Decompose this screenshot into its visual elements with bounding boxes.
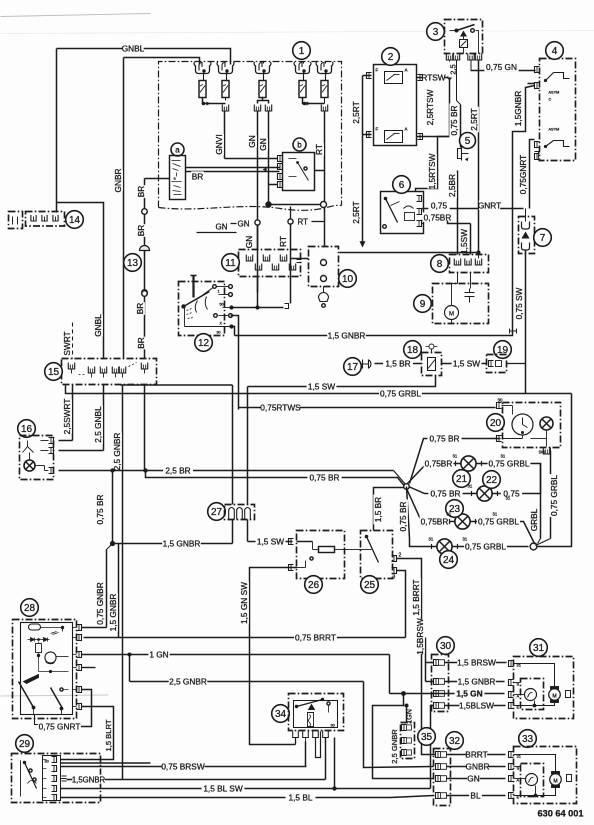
svg-text:11: 11 (225, 258, 236, 269)
svg-text:0,75 SW: 0,75 SW (514, 287, 524, 319)
svg-text:24: 24 (443, 555, 455, 566)
svg-text:1,5 GN SW: 1,5 GN SW (239, 582, 249, 624)
svg-text:16: 16 (21, 424, 33, 435)
svg-text:1,5 BRRT: 1,5 BRRT (411, 579, 421, 615)
svg-text:0,75 BR: 0,75 BR (430, 434, 460, 444)
svg-text:31: 31 (493, 512, 498, 517)
svg-text:0,75 BR: 0,75 BR (310, 473, 340, 483)
svg-text:BR: BR (136, 186, 146, 198)
svg-text:14: 14 (69, 215, 81, 226)
svg-text:5: 5 (465, 136, 471, 147)
svg-text:0,75GNRT: 0,75GNRT (518, 155, 528, 195)
svg-text:M: M (552, 694, 556, 700)
svg-text:3: 3 (393, 575, 396, 581)
svg-text:4: 4 (552, 46, 558, 57)
svg-text:1,5 GNBR: 1,5 GNBR (458, 677, 496, 687)
svg-text:2,5SWRT: 2,5SWRT (62, 399, 72, 435)
svg-text:0,75RTWS: 0,75RTWS (260, 403, 301, 413)
svg-text:GN: GN (238, 220, 250, 229)
svg-text:31: 31 (447, 512, 452, 517)
svg-text:RT: RT (314, 144, 324, 155)
svg-text:30: 30 (45, 760, 49, 764)
svg-text:28: 28 (24, 603, 36, 614)
svg-text:GNBL: GNBL (93, 314, 103, 337)
svg-text:32: 32 (449, 736, 461, 747)
svg-text:F: F (376, 68, 379, 73)
svg-text:2,5 GNBL: 2,5 GNBL (93, 406, 103, 443)
svg-text:BR: BR (192, 172, 204, 182)
svg-text:GNRT: GNRT (478, 201, 501, 211)
svg-text:13: 13 (127, 258, 139, 269)
svg-text:1,5 BRSW: 1,5 BRSW (457, 658, 496, 668)
svg-text:1,5 GNBR: 1,5 GNBR (108, 594, 118, 632)
svg-text:SM: SM (539, 450, 546, 455)
svg-text:6: 6 (399, 180, 405, 191)
svg-text:GN: GN (258, 138, 268, 150)
svg-text:8: 8 (437, 259, 443, 270)
svg-text:1,5 GNBR: 1,5 GNBR (163, 539, 201, 549)
svg-text:0,75 GRBL: 0,75 GRBL (465, 542, 506, 552)
svg-text:25: 25 (364, 580, 376, 591)
svg-text:GNBR: GNBR (113, 169, 123, 193)
svg-text:1,5 SW: 1,5 SW (453, 359, 480, 369)
svg-text:RT: RT (298, 218, 309, 227)
svg-text:2,5BR: 2,5BR (447, 174, 457, 197)
svg-text:1,5 BR: 1,5 BR (385, 359, 410, 369)
svg-text:35: 35 (421, 732, 433, 743)
svg-text:0,75 GRBL: 0,75 GRBL (380, 389, 421, 399)
svg-text:0,75BR: 0,75BR (421, 517, 449, 527)
svg-text:a: a (175, 145, 180, 154)
svg-text:GN: GN (244, 236, 254, 248)
svg-text:31: 31 (506, 496, 511, 501)
svg-text:0,75 GRBL: 0,75 GRBL (549, 475, 559, 516)
svg-text:7: 7 (540, 233, 546, 244)
svg-text:30: 30 (217, 331, 221, 335)
svg-text:1,5GNBR: 1,5GNBR (513, 91, 523, 127)
svg-text:GN: GN (216, 223, 228, 232)
svg-text:15: 15 (48, 367, 60, 378)
svg-text:2,5RT: 2,5RT (469, 108, 479, 130)
svg-text:31: 31 (463, 537, 468, 542)
svg-text:1GN: 1GN (405, 709, 414, 724)
svg-text:33: 33 (522, 734, 534, 745)
svg-text:2: 2 (388, 52, 394, 63)
svg-text:2,5 GNBR: 2,5 GNBR (112, 433, 122, 471)
svg-text:BR: BR (136, 337, 146, 349)
svg-text:C: C (549, 98, 552, 102)
svg-text:1,5 SW: 1,5 SW (308, 382, 335, 392)
svg-text:1,5 GNBR: 1,5 GNBR (328, 331, 366, 341)
svg-text:0,75BR: 0,75BR (425, 459, 453, 469)
svg-text:630 64 001: 630 64 001 (538, 809, 584, 819)
svg-text:0,75 GNBR: 0,75 GNBR (95, 582, 105, 624)
svg-text:A: A (405, 127, 408, 132)
svg-text:M: M (553, 779, 557, 785)
svg-text:26: 26 (308, 580, 320, 591)
svg-text:BR: BR (136, 225, 146, 237)
svg-text:0,75: 0,75 (431, 201, 448, 211)
svg-text:M: M (449, 312, 454, 318)
svg-text:10: 10 (342, 274, 354, 285)
svg-text:1,5 SW: 1,5 SW (257, 537, 284, 547)
svg-text:30: 30 (440, 641, 452, 652)
svg-text:SWRT: SWRT (62, 331, 72, 355)
svg-text:RT: RT (278, 236, 288, 247)
svg-text:27: 27 (211, 507, 223, 518)
svg-text:ASYM: ASYM (549, 91, 560, 95)
svg-text:21: 21 (456, 474, 468, 485)
svg-text:9: 9 (420, 299, 426, 310)
svg-text:12: 12 (198, 338, 210, 349)
svg-text:31: 31 (468, 484, 473, 489)
svg-text:20: 20 (490, 418, 502, 429)
svg-text:BRRT: BRRT (465, 750, 487, 760)
svg-text:GNBR: GNBR (466, 762, 490, 772)
svg-text:0,75 GRBL: 0,75 GRBL (488, 459, 529, 469)
svg-text:2: 2 (399, 553, 402, 559)
svg-text:BR: BR (135, 303, 145, 315)
svg-text:ASYM: ASYM (549, 128, 560, 132)
svg-text:2,5 GNBR: 2,5 GNBR (169, 677, 207, 687)
svg-text:17: 17 (347, 362, 359, 373)
svg-text:1,5BRSW: 1,5BRSW (415, 618, 425, 655)
svg-text:1,5 BR: 1,5 BR (373, 497, 383, 522)
svg-text:A: A (405, 68, 408, 73)
svg-text:1,5 BLRT: 1,5 BLRT (104, 719, 113, 751)
svg-text:0,75 BR: 0,75 BR (95, 495, 105, 525)
svg-text:22: 22 (486, 475, 498, 486)
svg-text:GNVI: GNVI (214, 134, 224, 154)
svg-text:1,5 BL: 1,5 BL (289, 793, 313, 803)
svg-text:0,75 GRBL: 0,75 GRBL (478, 517, 519, 527)
svg-text:0,75 GNRT: 0,75 GNRT (39, 722, 81, 732)
svg-text:GN: GN (467, 774, 479, 784)
svg-text:31: 31 (501, 454, 506, 459)
svg-text:2,5RTSW: 2,5RTSW (425, 89, 435, 125)
svg-text:2,5: 2,5 (448, 64, 457, 75)
svg-text:1 GN: 1 GN (149, 650, 168, 660)
svg-text:18: 18 (407, 345, 419, 356)
svg-text:31: 31 (453, 454, 458, 459)
svg-text:0,75 GN: 0,75 GN (486, 62, 517, 72)
svg-text:1: 1 (299, 46, 305, 57)
svg-text:RTSW: RTSW (421, 73, 445, 83)
svg-text:1: 1 (218, 290, 220, 294)
svg-text:GN: GN (247, 135, 257, 147)
svg-text:0,75 BR: 0,75 BR (431, 489, 461, 499)
svg-text:1,5RTSW: 1,5RTSW (427, 153, 437, 189)
svg-text:1,5BLSW: 1,5BLSW (459, 701, 494, 711)
svg-text:30: 30 (498, 398, 504, 403)
svg-text:34: 34 (275, 709, 287, 720)
svg-text:30: 30 (331, 724, 335, 728)
svg-text:0,75 BRRT: 0,75 BRRT (295, 633, 336, 643)
svg-text:2,5 GNBR: 2,5 GNBR (390, 729, 399, 764)
svg-text:0,75 BR: 0,75 BR (449, 106, 459, 136)
svg-text:F: F (376, 127, 379, 132)
svg-text:1,5 BL SW: 1,5 BL SW (203, 784, 243, 794)
svg-text:0,75 BR: 0,75 BR (398, 502, 408, 532)
svg-text:1,5GNBR: 1,5GNBR (72, 775, 106, 784)
svg-text:1,5 GN: 1,5 GN (456, 689, 482, 699)
svg-text:50: 50 (220, 303, 224, 307)
svg-text:0,75 BRSW: 0,75 BRSW (161, 762, 205, 772)
svg-text:1,5SW: 1,5SW (459, 229, 469, 254)
svg-text:29: 29 (19, 739, 31, 750)
svg-text:31: 31 (533, 643, 545, 654)
svg-text:GRBL: GRBL (529, 508, 539, 531)
svg-text:3: 3 (433, 27, 439, 38)
svg-text:31: 31 (429, 537, 434, 542)
svg-text:2,5RT: 2,5RT (351, 101, 361, 123)
svg-text:b: b (297, 140, 302, 149)
svg-text:BL: BL (470, 791, 481, 801)
svg-text:2,5RT: 2,5RT (351, 201, 361, 223)
svg-text:GNBL: GNBL (122, 44, 145, 54)
svg-text:2,5 BR: 2,5 BR (165, 466, 190, 476)
